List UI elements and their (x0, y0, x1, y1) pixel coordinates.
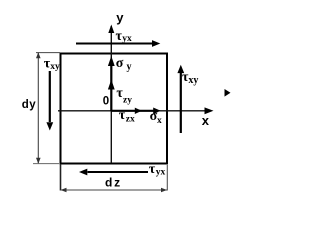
tau_xy left arrow (49, 71, 51, 122)
svg-text:zx: zx (126, 115, 135, 125)
dimension dz line (61, 189, 168, 191)
tau_zx arrow (111, 110, 135, 112)
svg-text:τ: τ (119, 108, 126, 123)
sigma_x arrow (135, 110, 154, 112)
svg-text:y: y (116, 10, 124, 25)
extension line below box right (166, 165, 168, 191)
x axis arrowhead (205, 107, 214, 114)
y axis line (110, 26, 112, 163)
svg-text:xy: xy (188, 75, 198, 86)
svg-text:yx: yx (156, 168, 166, 178)
sigma_y arrow (110, 64, 112, 111)
svg-text:x: x (202, 113, 210, 128)
svg-text:τ: τ (149, 162, 156, 177)
extension line top-left (36, 52, 60, 54)
marker right triangle (225, 89, 231, 97)
x axis line (58, 110, 206, 112)
dimension dy line (37, 53, 39, 163)
y axis arrowhead (108, 25, 114, 34)
svg-text:y: y (127, 61, 132, 72)
svg-text:dz: dz (105, 175, 122, 189)
extension line bottom-left (33, 163, 59, 165)
tau_zy arrowhead (108, 80, 115, 90)
svg-text:σ: σ (116, 56, 124, 71)
dz arrow left (61, 188, 67, 193)
svg-text:yx: yx (122, 34, 132, 44)
svg-text:x: x (157, 116, 162, 126)
tau_xy right arrow (180, 73, 182, 133)
svg-text:zy: zy (123, 96, 132, 106)
tau_yx bottom arrow (88, 171, 149, 173)
svg-text:dy: dy (22, 99, 36, 111)
extension line below box left (60, 164, 62, 191)
dy arrow bottom (36, 158, 41, 164)
tau_yx top arrow (76, 43, 153, 45)
stress element box (61, 54, 168, 164)
svg-text:0: 0 (103, 96, 109, 108)
dz arrow right (161, 188, 167, 193)
svg-text:xy: xy (50, 62, 60, 72)
dy arrow top (36, 52, 41, 58)
